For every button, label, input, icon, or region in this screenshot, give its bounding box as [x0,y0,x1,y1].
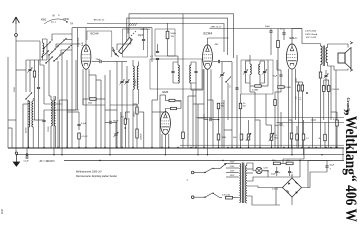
resistor R17 right [302,134,305,140]
wire x237 drop [236,55,238,148]
svg-text:1MΩ: 1MΩ [176,101,181,103]
wire hv line right [308,160,330,162]
wire C5 leads [143,28,145,40]
wire IF T1 feeds [177,56,179,62]
svg-text:249V/ 60mA: 249V/ 60mA [305,33,318,36]
heater bus [64,160,344,162]
wire vertical x67 down [66,60,68,148]
wire OT primary top [292,28,302,30]
wire tie y128 left [8,127,12,129]
wire R12 leads [240,94,242,103]
wire switch to V1 grid [56,44,72,49]
wire tie y112 mid [152,111,165,113]
wire R25 leads [274,92,276,100]
resistor R10 0.3M top [217,103,220,109]
resistor R23 130000 [136,129,138,138]
wire trimmer column joins [121,62,123,81]
resistor R19 850 [273,162,280,165]
resistor R7 1M [169,99,175,101]
switch S2 pickup [226,77,231,83]
output transformer T3 primary [321,46,323,65]
wire IF T2 primary loop [246,61,251,71]
wire L2 leads [132,60,134,66]
wire coil L1 top [43,39,48,43]
capacitor C16 0.1uF [77,123,80,125]
wire R14 leads [298,82,300,85]
wire L5 leads [32,98,34,101]
wire tie y120d [289,119,293,121]
fuse F1 0.8/1.2A [226,196,233,199]
svg-text:70000: 70000 [48,126,50,132]
ground symbol [13,154,19,166]
svg-text:50µF: 50µF [273,76,278,78]
svg-text:3kΩ: 3kΩ [88,103,92,105]
coil L7 [54,100,55,126]
svg-text:0,1-0,2: 0,1-0,2 [82,136,88,138]
wire tie y104 left [23,103,29,105]
resistor R8 [171,107,177,109]
wire x304 from bus [303,148,305,160]
ground bus second [17,154,344,156]
wire left horiz tie y104 [44,103,62,105]
svg-text:130000: 130000 [141,134,143,140]
shield can outline osc section [87,31,112,57]
oscillator coil L3 [137,66,138,89]
wire x260 lower drop [259,120,261,148]
wire OT primary leads [320,44,322,47]
wire x120.9 drop [120,112,122,148]
wire x72 band drop [71,50,73,148]
wire antenna lead-in [15,24,17,34]
wire left vertical x26 [25,60,27,92]
wire C3 leads [92,61,100,63]
wire S2 down [227,83,229,120]
tube V3 EBL1 output pentode [287,44,298,69]
band switch stator dots [51,39,52,40]
wire vertical x58 down [57,61,59,148]
wire left horiz tie y112 [67,111,79,113]
resistor R27 on x183 [182,132,185,139]
wire x312.5 drop [312,118,314,149]
IF input coil L4 [29,101,30,127]
wire C2 leads [38,60,40,87]
wire bridge ac from transformer [247,186,276,188]
wire R23 leads [136,138,138,148]
wire cathode tie [277,69,281,71]
antenna jack [15,34,18,37]
wire tie y100 mid [152,99,158,101]
trimmer C10 [220,73,223,75]
wire top supply rail middle [127,18,228,55]
svg-text:≈: ≈ [187,178,189,182]
resistor R29 right pair [327,86,330,92]
svg-text:Meßinstrument 1000 Ω/V: Meßinstrument 1000 Ω/V [76,171,102,174]
trimmer C7 osc [120,80,123,82]
capacitor C5 40pF [142,38,145,40]
resistor R25 [274,100,277,106]
wire switch to selector [213,168,220,170]
wire long AVC line y122.4 [276,121,344,123]
resistor R11 1M [217,134,220,140]
wire C20 leads [276,167,278,172]
wire R24 leads [280,80,282,86]
svg-text:ECH4: ECH4 [204,32,213,36]
trimmer C24 [114,133,117,135]
wire R6/C14 leads [320,70,322,72]
wire anode rail V3 region [210,28,303,30]
wire x336 drop [335,70,337,148]
wire x193 drop2 [192,90,194,148]
wire x110 vert [109,70,111,155]
capacitor C25 50uF cathode [280,74,283,76]
svg-text:4,5MΩ: 4,5MΩ [285,87,291,89]
resistor R30 [324,134,327,141]
wire IF T2 feeds [249,55,251,61]
wire tie y80 [96,79,101,81]
wire x188 drop [187,96,189,148]
wire switch outputs right [61,50,72,55]
svg-text:79pF: 79pF [96,59,102,61]
power transformer T4 primary [239,164,240,203]
wire x224 lower [223,100,225,148]
junction dots on lower buses [53,154,54,155]
wire grid tie y110b [105,109,117,111]
svg-text:20000: 20000 [26,127,28,133]
power transformer T4 secondary [246,166,247,204]
wire C12 leads [270,29,272,31]
wire x300 heater drop [299,161,301,178]
wire R15 leads [301,82,303,85]
wire C13 leads [283,29,285,33]
tuning capacitor gang C4 [119,38,133,54]
svg-text:0,4V/0,25A: 0,4V/0,25A [305,30,316,33]
wire C25 leads [280,70,282,75]
bridge rectifier GR [283,178,302,197]
wire tie y80 right [324,79,329,81]
svg-text:0,3MΩ: 0,3MΩ [252,90,259,92]
wire x292 low drop [291,120,293,133]
wire R27 lower lead [182,139,184,148]
wire y99 tie [82,99,84,105]
svg-text:220/125V: 220/125V [78,37,80,47]
resistor R24 4.5M [278,86,285,88]
svg-text:ERH 250V: ERH 250V [141,29,151,31]
wire IF T1 out down [190,83,192,90]
wave switch contact S1a [26,94,31,100]
wire anode rail tube V1 to tuning [72,27,152,29]
wire R28/R29 leads [323,80,325,86]
wire x160 drop [159,106,161,148]
ground bus main [8,147,344,149]
svg-text:1500: 1500 [14,86,16,92]
IF T1 primary coil [178,65,179,83]
mains terminal upper [191,171,194,174]
wire x331 drop [330,66,332,120]
resistor R14 [297,85,300,91]
wire vertical x52 [51,34,53,40]
wire V2 pins down [203,69,205,147]
junction dots on buses [28,147,29,148]
wire x218.5 drop [218,108,220,148]
wire tie y130 [224,129,232,131]
band switch arc with arrow [44,19,68,24]
wire lamp circuit [262,171,268,178]
wire y112 tie right [331,111,337,113]
svg-text:(≈250): (≈250) [272,188,278,191]
wire R5 leads [277,29,279,41]
resistor R5 grid EBL1 [277,41,280,48]
wire long line y145 [180,144,344,146]
wire P2 leads [271,125,273,134]
wire x128.9 drop [128,118,130,148]
wire R22 leads [136,104,138,107]
wire grid tie y70 left [16,69,26,71]
wire C18 leads [280,112,282,124]
svg-text:220V: 220V [230,166,235,168]
wire L4 leads [28,100,30,101]
capacitor C18 50uF + [280,123,283,125]
wire V1 anode to rail [85,28,87,45]
wire tie y100 left2 [60,99,68,101]
wire IF T1 primary loop [173,62,178,65]
power switch S3 lower [205,193,212,197]
tube V1 ECH4 triode-hexode [81,45,91,69]
wire long AF line y117.5 [196,117,344,119]
capacitor C9 at V2 [217,60,219,63]
wire OT top feed [302,29,321,44]
svg-text:TA: TA [70,23,73,26]
wire C15 leads [43,110,45,120]
svg-text:125V: 125V [230,171,235,173]
capacitor C6 padder [156,50,159,52]
wire tie y96 left [49,95,51,97]
band switch S1 wafer contacts [44,42,51,49]
wire tie y118 [198,117,204,119]
IF transformer T2 shield can [241,60,273,94]
resistor R1 input [33,71,35,77]
wire antenna branch to band switch [16,40,40,42]
wire C17 leads [203,114,205,120]
wire V2 anode up [207,38,209,44]
wire tie y100r [208,99,214,101]
wire heater line right [268,176,300,178]
wire tie y92 [250,91,255,93]
wire x143.8 drop [143,112,145,148]
wire x59.5 drop [59,100,61,148]
wire OT secondary to speaker [327,44,329,48]
wire x105 vert [104,75,106,148]
svg-text:M: M [53,15,55,18]
wire R18 leads [336,112,338,120]
wire R4 environment [250,85,255,87]
wire tie y82 right [299,81,303,83]
wire tie y75 [89,74,96,76]
wire x49 band drop [48,55,50,96]
wire L3 leads [138,62,140,67]
wire V3 anode up [291,29,293,44]
output transformer T3 secondary [326,48,328,63]
svg-text:50µF: 50µF [330,165,335,167]
band switch extra contacts [42,51,49,58]
svg-text:4k: 4k [319,138,321,140]
wire x183 long drop [182,14,184,132]
wire left horiz tie y110 [44,109,79,111]
wire L7 leads [55,96,57,100]
wire left vertical x47 [46,39,48,60]
wire V1 grid left [72,43,80,45]
wire y120 tie right [311,119,316,121]
wire x255 drop [254,92,256,148]
wire x23 drop [22,104,24,148]
wire tie left y120 [8,119,16,121]
wire y82 tie [296,81,299,83]
tube V4 EM4 magic eye [160,112,170,135]
tube V2 ECH4 IF amp [203,45,213,69]
wire tie y104b [67,109,76,111]
wire x76 drop [75,60,77,110]
shield can outline tuning section [123,29,148,57]
wire tie y120c [255,119,260,121]
wire V4 pins [161,134,163,148]
IF T2 trimmer left [244,70,247,72]
wire T4 secondary stubs [247,168,253,170]
wire switch frame left [40,41,44,65]
wire top rail from band switch area [87,24,224,53]
wire bridge connections [291,197,293,205]
wire x345 small drop [342,148,344,161]
IF T1 primary cap [171,70,174,72]
svg-text:6,3V: 6,3V [264,168,269,170]
wire left column top tie [26,59,47,61]
ground switch [15,152,17,154]
wire gang top [127,28,129,34]
wire rectifier dc link [282,159,284,163]
wire x198 drop [197,104,199,155]
power switch S3 upper [205,169,212,173]
wire V4 feed top [164,95,166,101]
svg-text:EM4: EM4 [163,90,169,94]
wire C24 leads [115,122,117,133]
potentiometer P1 [247,134,250,140]
padder capacitor C2 [37,86,40,88]
svg-text:BEL 80,1V: BEL 80,1V [94,19,105,21]
wire T4 secondary bottom [247,196,280,205]
wire left x12 drop [11,128,13,148]
wire R9 lead [78,139,80,148]
wire x67.4 drop [66,100,68,148]
svg-text:MΩ: MΩ [275,138,279,140]
svg-text:1,2/0,5W: 1,2/0,5W [332,89,340,91]
wire mains leads [194,172,205,174]
output transformer T3 core [322,46,324,67]
wire bus left verticals [7,57,9,148]
wire x266 drop [265,94,267,125]
svg-text:50pF: 50pF [265,26,271,28]
antenna coil L1 [43,43,44,54]
svg-text:ZRH 24,1V: ZRH 24,1V [211,26,222,28]
wire x152 drop [151,28,153,62]
svg-text:EBL1: EBL1 [290,36,298,40]
resistor R21 [124,119,126,125]
svg-text:230V: 230V [230,162,235,164]
resistor R16 right [296,134,299,140]
wire IF T1 secondary loop [191,62,196,65]
wire x44 band drop [43,65,45,104]
shield can outline detector section [155,29,175,56]
wire x54 drop [53,96,55,155]
tuning gang coupling dashes [131,31,136,36]
wire vertical x72 tie [71,28,73,50]
wire y120 tie mid [34,119,45,121]
IF transformer T1 shield can [150,59,202,89]
svg-text:40pF: 40pF [138,35,144,37]
capacitor C19 below bus [26,154,28,156]
oscillator coil L2 [133,66,134,89]
wire C16 leads [78,112,80,124]
wire cluster ties [133,103,137,105]
electrolytic C21 50uF [288,170,291,172]
resistor R26 under EBL1 [290,133,293,139]
trimmer C8 osc [125,80,128,82]
svg-text:KW1: KW1 [41,19,47,22]
wire V3 pins down [288,69,290,148]
electrolytic C20 50uF [275,170,278,172]
wire y125 tie [266,124,272,126]
capacitor C3 79pF [99,60,101,63]
capacitor C15 left [42,119,45,121]
svg-text:UKW: UKW [63,18,69,21]
wire x232 drop [231,62,233,148]
wire R21 leads [124,112,126,119]
wire C6 column [157,44,159,51]
wire x77.5 vertical [77,28,79,110]
wire trimmer C1 leads [29,60,31,69]
resistor R4 0.3M [255,85,262,87]
pilot lamp LA [256,167,262,173]
wire x296 drop [295,78,297,82]
input trimmer C1 [28,68,31,70]
wire speaker terminals [344,44,348,48]
resistor R22 20000 [136,107,138,114]
svg-text:ECH4: ECH4 [91,32,99,36]
resistor R6 feedback [319,72,322,78]
wire IF T2 secondary loop [260,61,265,71]
resistor R9 [78,133,81,139]
wire V1 pins down [82,69,84,105]
resistor R15 [301,85,304,91]
IF T2 trimmer right [263,70,266,72]
svg-text:0,1µF: 0,1µF [24,160,30,162]
svg-text:20000: 20000 [134,112,136,117]
wire x96 lower drop [95,75,97,148]
electrolytic C22 50uF right [325,165,328,167]
wire C22 leads [326,161,328,166]
wire fuse to transformer [233,197,239,199]
resistor R28 right pair [323,86,326,92]
svg-text:ZF = 468 kHz: ZF = 468 kHz [40,160,56,163]
wire grid tie y105 mid [110,104,139,106]
IF T1 secondary coil [190,65,191,83]
IF T1 secondary cap [194,70,197,72]
wire EM4 grid wiring [165,100,169,102]
wire V2 rail tie [208,37,229,39]
wire V2 grid from IF [202,69,204,90]
wire top supply rail upper [129,14,234,58]
mains terminal lower [191,196,194,199]
capacitor C23 500pF [109,121,111,124]
svg-text:110V: 110V [230,175,235,177]
capacitor C13 [282,32,285,34]
